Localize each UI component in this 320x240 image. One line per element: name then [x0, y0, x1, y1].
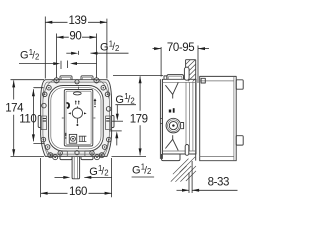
svg-text:G: G [132, 165, 141, 177]
bottom-left inner screw [58, 151, 62, 155]
frame screw square [201, 78, 205, 83]
svg-text:G: G [115, 94, 124, 106]
dim 110 ext ticks [33, 88, 44, 144]
frame right double edge [233, 76, 235, 160]
slot dashes left [43, 119, 47, 121]
bottom foot plate left [60, 156, 72, 159]
wall hatch bottom [171, 157, 196, 182]
G12 top-left leader [19, 63, 54, 65]
central valve circle [72, 108, 82, 118]
screw BL-b [45, 145, 50, 150]
dim 139 line [45, 21, 107, 23]
svg-text:G: G [20, 50, 29, 62]
svg-text:2: 2 [130, 96, 134, 105]
svg-text:90: 90 [69, 30, 81, 42]
valve right arrow [84, 112, 87, 114]
interior V bottom [165, 139, 178, 150]
screw left-upper [42, 103, 47, 108]
dim 70-95 line right [198, 48, 209, 50]
top stub right inner [83, 77, 92, 79]
screw circles on ring [41, 78, 111, 160]
flange ear tick [160, 119, 162, 124]
side valve middle circle [168, 120, 180, 132]
side valve inner circle [169, 122, 177, 130]
G12 top-right opposing arrow [66, 52, 71, 54]
port circle top-left G1/2 [54, 78, 59, 83]
bottom-center screw [75, 151, 79, 155]
frame top double edge [200, 80, 234, 82]
svg-text:G: G [100, 41, 109, 53]
bottom-right pair b [99, 153, 104, 158]
G12 top-right leader [91, 52, 129, 54]
dim 90 ext lines [57, 34, 97, 79]
screw TR-a [101, 85, 106, 90]
bottom-left pair b [53, 155, 58, 160]
dim 110 line [32, 89, 34, 141]
body outer octagon [41, 80, 112, 157]
svg-text:G: G [89, 166, 98, 178]
mounting frame [200, 76, 237, 160]
dim 160 ext lines [41, 158, 112, 197]
svg-text:160: 160 [69, 186, 87, 198]
top stub side [167, 75, 184, 80]
box centerline ticks [62, 87, 96, 149]
svg-text:174: 174 [5, 102, 24, 114]
interior V top tick [172, 94, 174, 98]
screw BR-a [107, 137, 112, 142]
bottom-right inner screw [90, 151, 94, 155]
right port lower ext line [110, 130, 122, 132]
screw BL-a [41, 137, 46, 142]
function unit box [43, 87, 110, 149]
side valve outer circle [166, 118, 181, 133]
wall front face top [185, 60, 187, 68]
valve bottom stem [76, 118, 78, 123]
svg-text:2: 2 [104, 168, 108, 177]
G12 bottom opposite arrow [55, 176, 64, 178]
box body rect [162, 79, 196, 154]
dim 70-95 arrows [154, 47, 205, 50]
left ring slot [41, 116, 46, 130]
top oval slot [73, 92, 81, 95]
corner tab strip BR [99, 138, 109, 156]
frame tab lower [236, 136, 243, 145]
wall top edge [186, 59, 196, 61]
function box frame [64, 90, 93, 147]
port circle top-right G1/2 [94, 78, 99, 83]
dim 8-33 ext lines [189, 161, 192, 193]
front flange double line [160, 79, 162, 159]
svg-text:2: 2 [147, 167, 151, 176]
frame bottom double edge [200, 156, 234, 158]
dim 8-33 arrows [182, 189, 199, 192]
bottom drain stub [72, 156, 80, 178]
bottom plug stadium [185, 145, 189, 156]
G12 top-left target dash [60, 61, 62, 69]
dim 90 arrows [57, 36, 97, 39]
dim 174 arrows [12, 80, 15, 156]
corner tab strip TL [43, 80, 53, 98]
bottom wide stub [162, 154, 181, 161]
svg-text:2: 2 [35, 52, 39, 61]
dim 179 ext lines [112, 76, 164, 157]
wall hatch top [186, 60, 196, 82]
lever glyph [66, 102, 70, 109]
box inner top edge [162, 81, 196, 83]
right ring slot [106, 116, 111, 130]
top stub side inner [169, 76, 182, 79]
G12 bottom-middle underline [132, 176, 155, 178]
wall back face full [195, 60, 197, 161]
top stub right [81, 76, 93, 80]
svg-text:8-33: 8-33 [208, 176, 229, 188]
svg-text:110: 110 [19, 114, 36, 126]
box inner bottom edge [162, 150, 196, 152]
screw TR-b [105, 92, 110, 97]
corner tab strip BL [43, 138, 53, 156]
right port up arrow [116, 138, 118, 145]
corner tab strip TR [99, 80, 109, 98]
dim 174 ext lines [11, 80, 45, 157]
left ear bump [38, 116, 40, 128]
frame tab upper [236, 80, 243, 89]
dim 160 line [41, 192, 112, 194]
screw right-upper [106, 107, 111, 112]
screw BR-b [102, 145, 107, 150]
top-left opposing dash [67, 61, 69, 69]
dim 160 arrows [41, 192, 112, 195]
dim 70-95 line left [153, 48, 162, 50]
svg-text:139: 139 [69, 15, 87, 27]
right ear bump [112, 116, 114, 128]
dim 110 arrows [32, 89, 35, 141]
side valve stem right [181, 123, 184, 129]
screw TL-b [42, 92, 47, 97]
top-center screw [75, 80, 79, 84]
G12 right leader [115, 105, 136, 114]
box back section lines [186, 82, 193, 151]
side icon glyphs [169, 110, 171, 113]
valve top tick [76, 106, 78, 108]
G12 right target line [112, 120, 123, 122]
inner opening second line [51, 88, 101, 149]
dim 90 line [57, 36, 97, 38]
top stub left inner [62, 77, 71, 79]
box top-left step [164, 76, 167, 79]
dim 179 line [139, 76, 141, 155]
dim 139 ext lines [45, 17, 107, 79]
top-right opposing dash [78, 51, 80, 55]
bottom foot plate right [81, 156, 93, 159]
diverter square [69, 134, 76, 143]
bottom-left pair a [48, 153, 53, 158]
bottom-right pair a [95, 155, 100, 160]
svg-text:2: 2 [115, 44, 119, 53]
mini double arrows [76, 101, 79, 105]
interior V top [165, 83, 178, 95]
side valve dot [172, 124, 174, 126]
dim 8-33 line right [192, 189, 237, 191]
slot dashes right [106, 119, 110, 121]
inner opening rounded square [49, 86, 104, 152]
valve bottom dot [76, 124, 78, 126]
small arrow glyph right of box [94, 101, 96, 105]
body inner ring line [43, 82, 110, 154]
screw TL-a [47, 85, 52, 90]
comb icon [79, 136, 87, 141]
bottom drain stub inner walls [74, 157, 77, 179]
dim 70-95 ext lines [161, 46, 198, 84]
dim 8-33 line left [177, 189, 190, 191]
top stub left [60, 76, 72, 80]
svg-text:179: 179 [130, 113, 148, 125]
G12 bottom leader [84, 176, 111, 178]
function box inner line [66, 91, 91, 144]
dim 179 arrows [139, 76, 142, 155]
bottom drain niche [67, 151, 85, 157]
small exclaim mark [65, 133, 67, 136]
top plug stadium [184, 67, 189, 80]
svg-text:70-95: 70-95 [167, 42, 194, 54]
G12 top-left opposing arrow [77, 63, 97, 65]
valve left arrow [68, 112, 71, 114]
dim 174 line [13, 80, 15, 156]
dim 139 arrows [45, 21, 107, 24]
interior V bottom tick [172, 135, 174, 139]
